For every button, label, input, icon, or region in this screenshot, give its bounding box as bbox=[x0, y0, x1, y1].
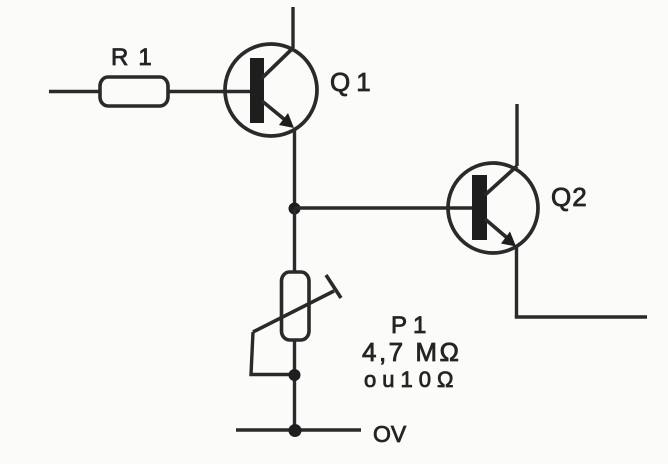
ground 0V line bbox=[236, 428, 361, 431]
wire Q2 emitter down bbox=[515, 246, 518, 317]
resistor R1 bbox=[100, 77, 168, 106]
svg-text:ou10Ω: ou10Ω bbox=[364, 367, 459, 392]
P1 wiper arm bbox=[253, 291, 334, 332]
svg-text:4,7 MΩ: 4,7 MΩ bbox=[362, 337, 461, 367]
wire node to P1 bbox=[293, 209, 296, 273]
svg-text:P1: P1 bbox=[391, 312, 432, 339]
wire P1 bottom bbox=[293, 340, 296, 430]
node wiper junction bbox=[289, 369, 301, 381]
wire Q2 collector up bbox=[515, 104, 518, 166]
node junction emitter/base bbox=[289, 203, 301, 215]
svg-text:Q2: Q2 bbox=[551, 182, 588, 212]
node ground junction bbox=[289, 424, 302, 437]
wire input left bbox=[49, 90, 101, 93]
wire node to Q2 base bbox=[295, 206, 475, 209]
svg-text:OV: OV bbox=[373, 421, 407, 447]
wire bottom right bbox=[515, 315, 647, 318]
svg-text:Q1: Q1 bbox=[330, 67, 377, 97]
transistor Q2 bbox=[448, 163, 538, 253]
wire Q1 emitter down bbox=[293, 129, 296, 210]
transistor Q1 bbox=[225, 44, 317, 136]
potentiometer P1 body bbox=[282, 272, 310, 340]
wire wiper to bottom terminal bbox=[251, 332, 294, 375]
wire R1 to Q1 base bbox=[167, 90, 252, 93]
wire Q1 collector up bbox=[291, 7, 294, 48]
svg-text:R1: R1 bbox=[111, 44, 162, 71]
P1 wiper tick bbox=[326, 275, 341, 298]
